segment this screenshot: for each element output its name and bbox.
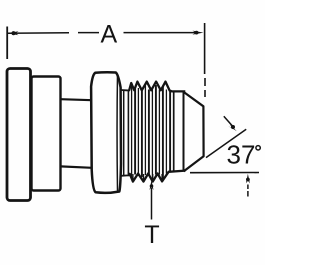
svg-text:A: A <box>100 21 117 49</box>
leader arrow to angle line <box>224 116 237 131</box>
thread crest zigzag top <box>128 82 186 92</box>
flare seat start line <box>183 92 185 171</box>
flange (leftmost body) <box>7 69 31 201</box>
extension line right (nose tip), lower part dashed <box>204 23 206 97</box>
degree symbol <box>256 146 260 150</box>
svg-text:T: T <box>144 221 159 249</box>
dimension line A left segment with arrowhead <box>8 31 69 35</box>
dimension line A right segment with arrowhead <box>124 31 204 35</box>
hex nut outline <box>91 72 121 193</box>
arrow up to thread root (T) <box>150 180 154 220</box>
neck top line <box>61 99 93 100</box>
shank bottom line <box>121 174 130 177</box>
hex facet line (right face boundary) <box>116 75 118 191</box>
thread root zigzag bottom <box>128 171 186 182</box>
angle reference diagonal (parallel to chamfer) <box>206 129 246 157</box>
nose cone outline (37 degree flare) <box>184 92 204 171</box>
arrow up to flare seat line, dashed stem <box>246 174 250 197</box>
svg-text:37: 37 <box>227 139 256 169</box>
neck bottom line <box>61 166 93 167</box>
thread relief groove line <box>173 91 175 171</box>
dimension line A middle dash <box>78 32 99 34</box>
shank face line <box>123 90 125 176</box>
thread root tip shading <box>133 174 162 180</box>
thread flank lines <box>128 85 170 179</box>
shank top line (between hex and threads) <box>121 89 130 92</box>
dimension line (flare seat level) <box>190 172 259 174</box>
shoulder (second body step) <box>32 77 61 191</box>
extension line left (flange face) <box>6 27 8 60</box>
